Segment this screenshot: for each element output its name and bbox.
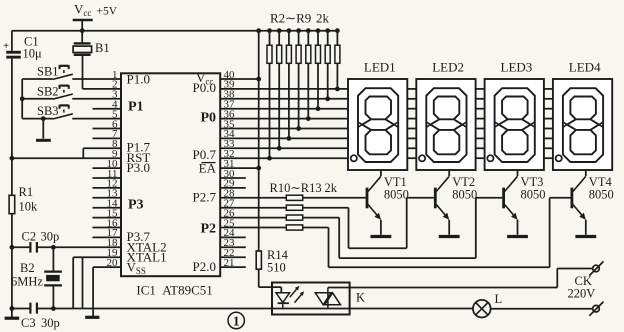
resistor R9 — [335, 28, 340, 91]
label P1 port — [128, 100, 144, 115]
resistor R11 — [220, 205, 302, 210]
svg-text:R2∼R9: R2∼R9 — [270, 11, 311, 26]
svg-text:P2.0: P2.0 — [193, 259, 216, 274]
svg-text:P1.0: P1.0 — [127, 72, 150, 87]
pin 39 — [224, 79, 236, 91]
svg-text:LED4: LED4 — [569, 60, 601, 75]
svg-text:1: 1 — [233, 315, 240, 330]
pin 33 — [224, 138, 236, 150]
transistor VT4 8050 — [572, 170, 614, 235]
svg-text:L: L — [495, 292, 503, 306]
resistor R5 — [296, 28, 301, 131]
svg-text:LED2: LED2 — [432, 60, 464, 75]
pin 30 — [220, 168, 246, 180]
ground VT3 emitter — [507, 235, 528, 238]
label P2.0 — [193, 259, 216, 274]
buzzer B1 — [73, 31, 109, 89]
resistor R6 — [306, 28, 311, 121]
pin 17 — [93, 227, 122, 239]
pin 8 — [112, 138, 118, 150]
Vcc power symbol +5V — [73, 2, 118, 32]
svg-text:+5V: +5V — [97, 6, 118, 18]
svg-text:AT89C51: AT89C51 — [162, 283, 213, 298]
pin 36 — [224, 108, 236, 120]
capacitor C3 30p — [21, 303, 60, 330]
pushbutton SB3 — [22, 104, 121, 119]
label P1.0 — [127, 72, 150, 87]
svg-text:8050: 8050 — [384, 188, 409, 202]
svg-text:C3: C3 — [21, 316, 36, 330]
ground VT2 emitter — [439, 235, 460, 238]
ground Vss — [85, 316, 99, 319]
relay K box — [272, 283, 365, 315]
wire base VT2 — [303, 198, 434, 248]
ground VT1 emitter — [371, 235, 392, 238]
svg-text:40: 40 — [224, 69, 236, 81]
wire switch common rail — [20, 79, 46, 121]
svg-text:LED3: LED3 — [501, 60, 533, 75]
wire base VT4 — [303, 198, 571, 267]
wire P0.4 bus — [220, 128, 348, 130]
svg-text:C2: C2 — [22, 230, 37, 244]
svg-text:P2: P2 — [200, 222, 216, 237]
pin 32 — [224, 148, 235, 160]
pushbutton SB1 — [22, 65, 121, 80]
label P1.7 — [127, 140, 151, 155]
pin 13 — [93, 188, 122, 200]
pin 31 — [220, 158, 259, 170]
wire xtal branch — [82, 257, 84, 308]
pin 23 — [220, 237, 246, 249]
wire RST to pin9 — [12, 157, 121, 159]
svg-text:LED1: LED1 — [364, 60, 396, 75]
lamp L — [473, 292, 502, 318]
svg-text:6MHz: 6MHz — [11, 275, 43, 289]
label P2 port — [200, 222, 216, 237]
pin 28 — [224, 188, 236, 200]
label Vcc pin40 — [196, 70, 213, 87]
pushbutton SB2 — [22, 84, 121, 99]
crystal B2 6MHz — [11, 247, 62, 308]
wires P0 bus between LED3 and LED4 — [544, 89, 553, 158]
display LED4 — [553, 60, 612, 171]
svg-text:30p: 30p — [41, 230, 60, 244]
svg-text:B1: B1 — [95, 41, 110, 55]
svg-text:R10∼R13: R10∼R13 — [270, 181, 322, 195]
label P3.0 — [127, 160, 150, 175]
pin 40 — [220, 69, 259, 81]
label RST — [127, 150, 151, 165]
wire P0.2 bus — [220, 108, 348, 110]
resistor R7 — [316, 28, 321, 111]
pin 7 — [93, 128, 122, 140]
wire P0.7 bus — [220, 157, 348, 159]
svg-text:SB1: SB1 — [37, 65, 59, 79]
capacitor C2 30p — [12, 230, 59, 253]
svg-text:8050: 8050 — [589, 188, 614, 202]
resistor R10 — [220, 195, 302, 200]
pin 14 — [93, 198, 122, 210]
svg-text:P3.0: P3.0 — [127, 160, 150, 175]
label XTAL1 — [127, 249, 167, 264]
display LED1 — [348, 60, 407, 171]
label IC1 AT89C51 — [136, 283, 212, 298]
resistor R2 — [267, 28, 272, 160]
svg-text:2k: 2k — [325, 181, 338, 195]
pin 9 — [112, 148, 118, 160]
node figure number 1 — [228, 312, 244, 329]
wire left rail — [10, 31, 15, 317]
svg-text:P0: P0 — [200, 111, 216, 126]
label R10~R13 2k — [270, 181, 338, 195]
wire P0.3 bus — [220, 118, 348, 120]
resistor R14 510 — [256, 248, 288, 275]
label P2.7 — [193, 190, 217, 205]
terminal CK top — [589, 261, 603, 275]
wire P0.1 bus — [220, 98, 348, 100]
pin 12 — [93, 178, 122, 190]
wire ground line to relay — [12, 306, 473, 311]
pin 19 — [107, 247, 119, 259]
label P3 port — [128, 198, 144, 213]
label CK 220V — [568, 274, 596, 301]
pin 22 — [220, 247, 246, 259]
pin 18 — [107, 237, 119, 249]
wire R14 to relay input — [259, 269, 282, 292]
op-amp U1 IC1 AT89C51 body — [121, 73, 220, 276]
pin 26 — [224, 207, 236, 219]
resistor R1 10k — [9, 185, 38, 214]
display LED3 — [485, 60, 544, 171]
pin 37 — [224, 99, 236, 111]
display LED2 — [416, 60, 475, 171]
resistor R13 — [220, 225, 302, 230]
ground left rail — [5, 317, 20, 320]
label P0 port — [200, 111, 216, 126]
pin 34 — [224, 128, 236, 140]
pin 3 — [112, 89, 118, 101]
label EA — [199, 160, 217, 175]
wire Vcc to pin40 and EA — [256, 31, 261, 251]
wire XTAL1 to pin19 — [73, 257, 121, 308]
svg-text:10μ: 10μ — [23, 47, 43, 61]
svg-text:SB3: SB3 — [37, 104, 59, 118]
capacitor C1 10u — [3, 35, 42, 61]
wire P0.0 bus — [220, 88, 348, 90]
svg-text:2k: 2k — [316, 11, 330, 26]
resistor R3 — [277, 28, 282, 150]
wire P0.6 bus — [220, 147, 348, 149]
pin 27 — [224, 198, 236, 210]
svg-text:IC1: IC1 — [136, 283, 156, 298]
svg-text:8050: 8050 — [521, 188, 546, 202]
wires P0 bus between LED1 and LED2 — [407, 89, 416, 158]
label R2~R9 2k — [270, 11, 330, 26]
transistor VT3 8050 — [504, 170, 546, 235]
pin 29 — [220, 178, 246, 190]
svg-text:K: K — [356, 291, 365, 305]
label P0.0 — [193, 80, 216, 95]
label P3.7 — [127, 229, 151, 244]
transistor VT2 8050 — [435, 170, 477, 235]
label XTAL2 — [127, 239, 167, 254]
svg-text:P0.0: P0.0 — [193, 80, 216, 95]
wire B1 to pin2 — [83, 88, 122, 90]
svg-text:8050: 8050 — [452, 188, 477, 202]
triac inside relay — [315, 288, 340, 309]
pin 1 — [112, 69, 118, 81]
pin 6 — [93, 118, 122, 130]
terminal CK bottom — [589, 302, 603, 316]
svg-text:SB2: SB2 — [37, 84, 59, 98]
label Vss — [127, 259, 146, 276]
pin 35 — [224, 118, 236, 130]
ground switches — [36, 119, 51, 141]
svg-text:R1: R1 — [19, 185, 34, 199]
wire base VT1 — [303, 197, 366, 199]
resistor R8 — [325, 28, 330, 101]
pin 16 — [93, 217, 122, 229]
svg-text:P1: P1 — [128, 100, 144, 115]
wires P0 bus between LED2 and LED3 — [476, 89, 485, 158]
svg-text:20: 20 — [107, 257, 119, 269]
label P0.7 — [193, 147, 217, 162]
pin 2 — [112, 79, 118, 91]
pin 21 — [220, 257, 246, 269]
wire base VT3 — [303, 198, 503, 258]
wire P0.5 bus — [220, 137, 348, 139]
svg-text:220V: 220V — [568, 287, 596, 301]
svg-text:+: + — [3, 41, 9, 52]
resistor R12 — [220, 215, 302, 220]
transistor VT1 8050 — [367, 170, 409, 235]
svg-text:30p: 30p — [41, 316, 60, 330]
LED inside relay — [276, 286, 304, 309]
resistor R4 — [286, 28, 291, 141]
svg-text:510: 510 — [267, 261, 286, 275]
pin 25 — [224, 217, 236, 229]
pin 11 — [93, 168, 122, 180]
wire Vcc rail — [12, 28, 338, 33]
svg-text:P2.7: P2.7 — [193, 190, 217, 205]
pin 10 — [93, 158, 122, 170]
pin 15 — [93, 207, 122, 219]
pin 4 — [93, 99, 122, 111]
pin 24 — [220, 227, 246, 239]
svg-text:P3: P3 — [128, 198, 144, 213]
pin 38 — [224, 89, 236, 101]
svg-text:B2: B2 — [20, 261, 35, 275]
wire lamp to CK bottom — [491, 308, 593, 310]
pin 5 — [112, 108, 118, 120]
pin 20 — [107, 257, 119, 269]
svg-text:10k: 10k — [19, 200, 39, 214]
wire P1.7 pin8 link — [83, 148, 121, 158]
wire triac to CK top — [328, 269, 593, 288]
wire Vss pin20 to ground — [93, 267, 121, 316]
ground VT4 emitter — [575, 235, 596, 238]
wire XTAL2 to pin18 — [38, 245, 121, 250]
